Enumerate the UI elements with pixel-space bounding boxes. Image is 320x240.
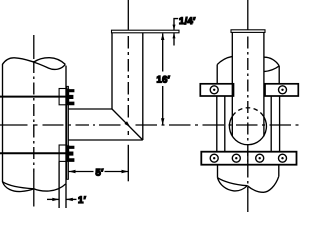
- upper band right piece: [265, 84, 298, 96]
- arm pipe circle solid arc: [229, 116, 266, 145]
- tube centerline above cap: [247, 0, 249, 30]
- upper band right bolt: [279, 86, 287, 94]
- upper band left piece: [200, 84, 233, 96]
- post left edge: [111, 33, 113, 109]
- post centerline dash-dot: [127, 36, 129, 135]
- pole left edge below band: [217, 165, 219, 178]
- bottom bolt rod: [0, 152, 66, 154]
- lower band bolt 4: [279, 154, 287, 162]
- pole bottom break lens upper arc: [218, 178, 248, 186]
- pole right edge between bands: [279, 96, 281, 152]
- arm centerline right part: [136, 124, 301, 126]
- pole left edge between bands: [216, 96, 218, 152]
- 1in arrow left: [66, 198, 73, 201]
- 1in left extension line: [58, 161, 60, 208]
- upper band left bolt: [210, 86, 218, 94]
- pole top break curve long: [3, 58, 66, 70]
- pole centerline solid top: [33, 35, 35, 59]
- 5in arrow left: [69, 170, 76, 173]
- 16in dimension line lower: [162, 86, 164, 125]
- arm top edge: [68, 108, 112, 110]
- centerline dash through band: [247, 151, 249, 166]
- top cap plate left view: [112, 30, 180, 33]
- quarter-inch lower stub: [173, 33, 175, 45]
- 16in arrow down: [161, 118, 164, 125]
- tube right edge: [263, 32, 265, 136]
- pole top break right lens upper: [264, 57, 279, 66]
- pole right edge below band: [278, 165, 280, 177]
- pole bottom break lens lower arc: [218, 178, 248, 191]
- pole top break left arc: [217, 56, 232, 64]
- right rod between bands: [270, 96, 272, 152]
- left rod between bands: [224, 96, 226, 152]
- 1in dimension left segment: [47, 198, 59, 200]
- horizontal arm centerline across page: [0, 124, 121, 126]
- pole centerline solid bottom: [33, 172, 35, 207]
- lower band bolt 2: [232, 154, 240, 162]
- lower band bolt 3: [256, 154, 264, 162]
- 1in arrow right: [52, 198, 59, 201]
- top bolt nut E-profile: [67, 89, 74, 106]
- top clamp bracket: [59, 89, 67, 105]
- 5in right extension line: [127, 145, 129, 182]
- pole left edge above band: [216, 65, 218, 84]
- 1in dimension right segment: [66, 198, 77, 200]
- quarter-inch arrow up: [173, 33, 176, 38]
- pole right edge above band: [278, 66, 280, 84]
- post right edge: [142, 33, 144, 140]
- arm end flange plate: [67, 86, 69, 179]
- svg-text:16′: 16′: [157, 75, 171, 86]
- 5in dimension right segment: [105, 171, 129, 173]
- lower band: [201, 152, 296, 165]
- pole bottom break lens lower: [3, 182, 34, 192]
- quarter-inch arrow down: [173, 25, 176, 30]
- pole left edge: [2, 64, 4, 182]
- lower band bolt 1: [210, 154, 218, 162]
- svg-text:5′: 5′: [96, 167, 105, 178]
- tube centerline solid bottom: [247, 193, 249, 212]
- pole centerline dash-dot: [33, 61, 35, 172]
- diagonal arrowhead: [124, 121, 130, 127]
- top cap plate right view: [231, 30, 265, 33]
- arm pipe circle dashed arc: [233, 108, 264, 116]
- bottom bolt nut E-profile: [67, 145, 74, 162]
- quarter-inch extension hook: [174, 19, 178, 30]
- top bolt rod: [0, 96, 66, 98]
- miter diagonal: [112, 109, 143, 140]
- pole top break right lens lower: [264, 66, 279, 72]
- 5in arrow right: [122, 170, 129, 173]
- 16in arrow up: [161, 33, 164, 40]
- pole right edge: [65, 66, 67, 184]
- tube centerline dash-dot: [247, 37, 249, 194]
- svg-text:1′: 1′: [78, 195, 87, 206]
- pole top break curve lens: [34, 58, 66, 65]
- 16in dimension line upper: [162, 33, 164, 71]
- svg-text:1/4′: 1/4′: [179, 16, 196, 27]
- bottom clamp bracket: [59, 145, 67, 161]
- pole bottom break lens upper: [3, 182, 34, 189]
- pole bottom break tail: [34, 184, 66, 191]
- pole bottom break tail arc: [247, 176, 278, 192]
- tube left edge: [231, 32, 233, 136]
- arm bottom edge: [68, 139, 142, 141]
- post centerline above plate: [127, 0, 129, 30]
- 1in right extension line: [65, 184, 67, 208]
- 5in dimension left segment: [69, 171, 94, 173]
